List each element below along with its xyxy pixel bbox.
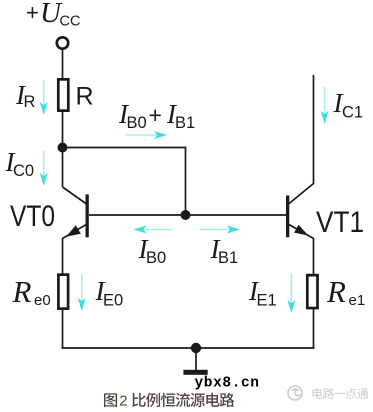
svg-text:+: + [26,0,39,25]
current arrow IR [40,80,48,115]
wire node A to base column [63,147,187,149]
wire Re0 to ground rail [62,310,64,349]
wire Re1 to ground rail [313,309,315,349]
label IB0 [138,234,167,267]
wire down to base node [185,147,187,215]
svg-text:e1: e1 [349,292,366,309]
ground node junction [191,343,201,353]
base node junction [181,210,191,220]
svg-text:B0: B0 [127,114,147,132]
transistor VT0 [63,187,88,239]
svg-text:VT1: VT1 [316,206,364,239]
resistor Re1 [307,275,317,308]
wire terminal to R [62,49,64,80]
current arrow IE1 [287,273,295,313]
current arrow IE0 [78,274,86,311]
label Re1 [326,274,365,309]
power terminal [57,37,68,48]
wire R to node A [62,110,64,187]
label IR [15,80,36,111]
svg-text:2: 2 [119,393,127,410]
svg-text:C1: C1 [342,104,363,122]
label IE0 [95,276,124,310]
svg-text:e0: e0 [34,292,51,309]
svg-text:C0: C0 [13,162,34,180]
label IC0 [5,147,35,180]
svg-text:B0: B0 [146,249,166,267]
label IB0+IB1 [118,99,195,132]
svg-text:CC: CC [60,13,81,29]
resistor Re0 [58,275,68,309]
resistor R [58,79,68,110]
svg-text:B1: B1 [175,114,195,132]
logo 电路一点通 [288,386,368,400]
wire VT1 emitter to Re1 [313,238,315,276]
svg-text:E0: E0 [103,292,123,310]
current arrow IB1 [200,226,240,234]
svg-text:R: R [24,93,36,111]
wire base rail [89,214,286,216]
label IC1 [333,88,364,122]
svg-text:E1: E1 [257,292,277,310]
caption 图2 比例恒流源电路 [104,393,234,410]
node A junction [58,143,68,153]
current arrow IC1 [321,87,329,124]
wire ground rail [62,347,315,349]
wire VT0 emitter to Re0 [62,238,64,275]
wire VT1 collector [313,75,315,184]
power label +Ucc [26,0,80,29]
current arrow IB0 [134,226,173,234]
current arrow IC0 [40,151,48,186]
label Re0 [12,274,51,309]
label IB1 [210,234,239,267]
ground [183,348,207,375]
svg-text:VT0: VT0 [10,200,55,233]
svg-text:R: R [326,274,346,309]
transistor VT1 [288,184,314,239]
svg-text:+: + [149,102,162,128]
svg-text:R: R [12,274,32,309]
current arrow IB0+IB1 [126,131,167,139]
svg-text:ybx8.cn: ybx8.cn [195,376,260,392]
label IE1 [248,276,277,310]
svg-text:R: R [76,83,94,111]
svg-text:B1: B1 [218,249,238,267]
